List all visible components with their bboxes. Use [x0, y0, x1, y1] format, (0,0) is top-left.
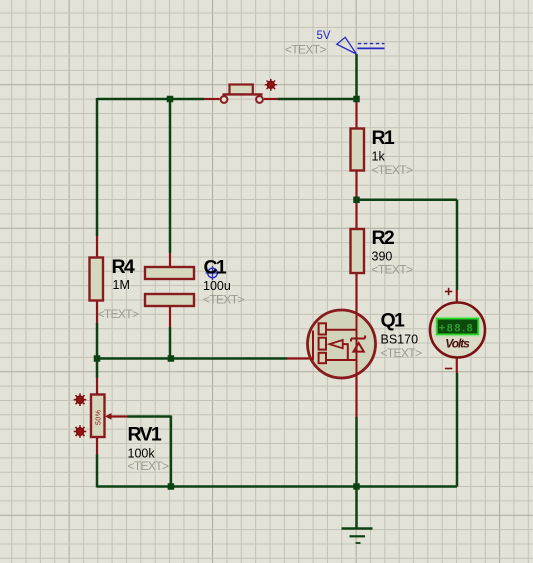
svg-text:R2: R2: [372, 227, 395, 249]
svg-text:+88.8: +88.8: [439, 322, 473, 334]
svg-text:Q1: Q1: [381, 310, 405, 332]
svg-text:C1: C1: [204, 257, 227, 279]
svg-text:<TEXT>: <TEXT>: [381, 346, 423, 360]
svg-text:<TEXT>: <TEXT>: [203, 293, 245, 307]
svg-text:50%: 50%: [95, 410, 102, 425]
svg-text:RV1: RV1: [128, 424, 162, 446]
svg-text:R1: R1: [372, 127, 395, 149]
svg-text:<TEXT>: <TEXT>: [98, 307, 140, 321]
svg-text:1k: 1k: [372, 150, 386, 164]
svg-text:<TEXT>: <TEXT>: [128, 459, 170, 473]
svg-text:5V: 5V: [317, 30, 331, 42]
svg-text:Volts: Volts: [445, 337, 470, 351]
svg-text:1M: 1M: [113, 278, 130, 292]
svg-text:<TEXT>: <TEXT>: [372, 163, 414, 177]
svg-text:100u: 100u: [203, 279, 231, 293]
svg-text:<TEXT>: <TEXT>: [285, 43, 327, 57]
svg-text:R4: R4: [112, 256, 135, 278]
svg-text:<TEXT>: <TEXT>: [372, 262, 414, 276]
svg-text:BS170: BS170: [381, 333, 419, 347]
